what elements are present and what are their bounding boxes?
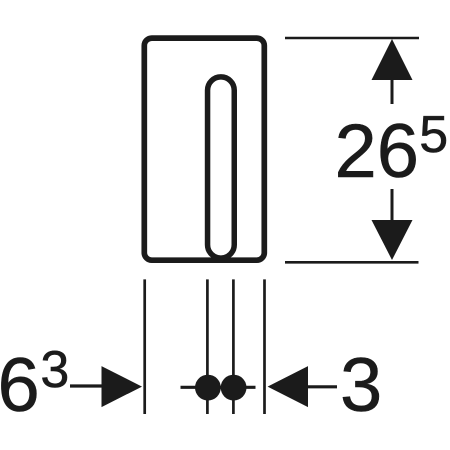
plate outline xyxy=(144,38,264,260)
dimension stem bottom xyxy=(391,189,394,220)
dimension line through dots xyxy=(181,386,256,389)
svg-text:5: 5 xyxy=(419,106,448,164)
dimension stem top xyxy=(391,80,394,104)
dot right xyxy=(221,375,247,401)
bottom extension line xyxy=(285,261,419,264)
dimension arrow right-pointing xyxy=(102,366,143,407)
svg-text:3: 3 xyxy=(40,341,69,399)
svg-text:6: 6 xyxy=(0,343,40,428)
dimension arrow left-pointing xyxy=(268,366,308,407)
dot left xyxy=(195,375,221,401)
dimension arrow up xyxy=(372,39,413,80)
extension line below plate right xyxy=(263,279,266,414)
dimension arrow down xyxy=(372,220,413,260)
svg-text:3: 3 xyxy=(340,343,382,428)
dimension line left of right-pointing arrow xyxy=(70,384,104,387)
svg-text:26: 26 xyxy=(335,109,420,194)
extension line below slot right xyxy=(232,279,235,414)
slot outline xyxy=(208,77,235,258)
extension line below plate left xyxy=(143,279,146,414)
extension line below slot left xyxy=(206,279,209,414)
top extension line xyxy=(285,37,419,40)
dimension line right of left-pointing arrow xyxy=(308,385,337,388)
